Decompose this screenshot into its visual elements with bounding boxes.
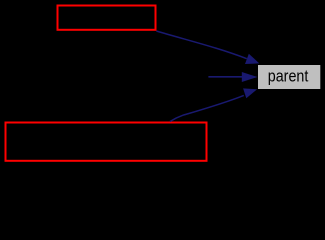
edge from top box to parent (156, 31, 246, 59)
arrowhead of bottom edge (243, 88, 257, 98)
edge from bottom box to parent (170, 95, 244, 121)
node parent (258, 65, 320, 89)
arrowhead of middle edge (242, 72, 258, 82)
svg-text:parent: parent (268, 67, 309, 86)
arrowhead of top edge (245, 54, 259, 64)
node top red box (58, 6, 156, 30)
node bottom red box (6, 123, 207, 161)
edge from middle node to parent (208, 76, 244, 78)
